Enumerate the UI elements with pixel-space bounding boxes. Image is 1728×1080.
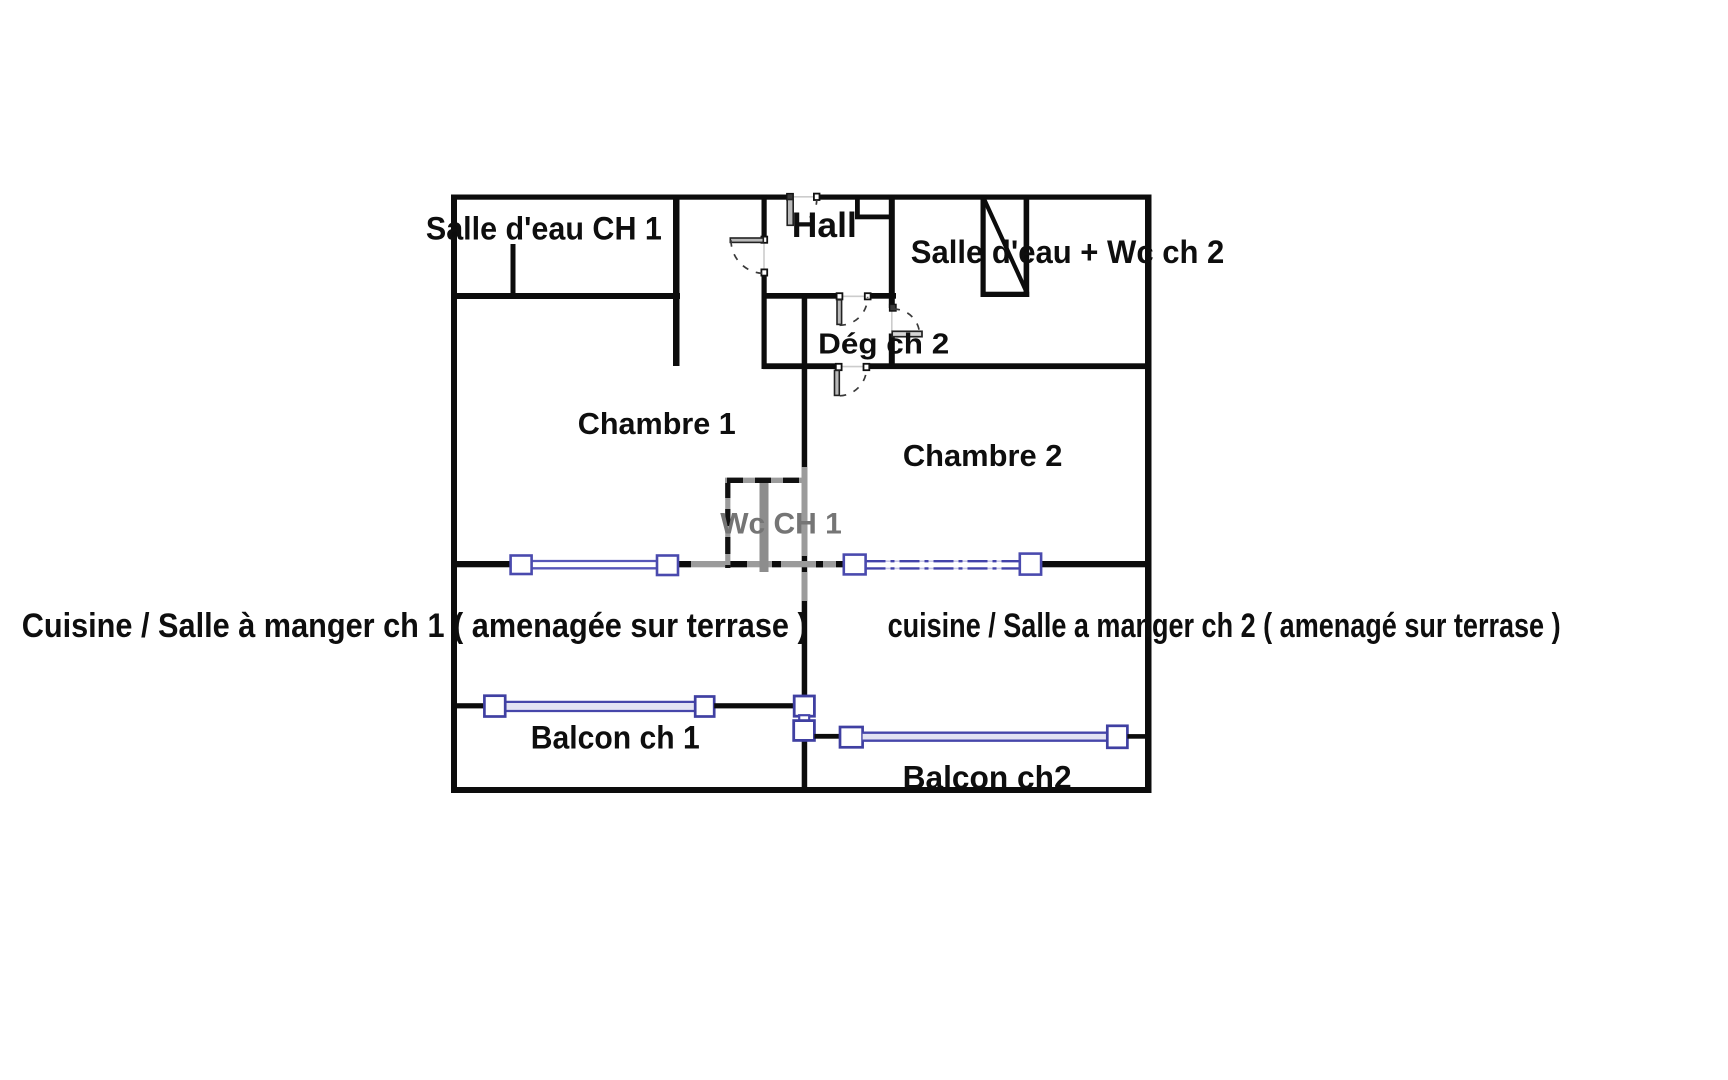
door leaf deg to chambre2 bbox=[835, 370, 840, 395]
divider junction square upper bbox=[794, 696, 814, 716]
watermark on band right of divider bbox=[808, 561, 836, 567]
door leaf deg to sde2 bbox=[892, 331, 922, 336]
wall hall niche vertical bbox=[855, 199, 860, 219]
window chambre2 dashdot bottom bbox=[866, 567, 1020, 569]
svg-text:Wc CH 1: Wc CH 1 bbox=[720, 508, 842, 541]
wall hall south west part bbox=[763, 293, 839, 299]
watermark on divider lower bbox=[802, 572, 808, 601]
svg-text:Balcon ch 1: Balcon ch 1 bbox=[531, 720, 700, 756]
wall top-right segment bbox=[817, 195, 1152, 200]
door jamb deg-ch2 east bbox=[864, 364, 870, 370]
door jamb deg-sde2 bbox=[890, 304, 896, 311]
door opening guide deg-ch2 bbox=[842, 366, 863, 368]
wall hall south east part bbox=[866, 293, 896, 299]
balcony1 window band fill bbox=[504, 701, 696, 712]
door opening guide entrance bbox=[794, 196, 817, 198]
divider junction square lower bbox=[794, 721, 815, 741]
svg-text:Balcon ch2: Balcon ch2 bbox=[903, 760, 1072, 796]
wall right exterior bbox=[1145, 195, 1152, 794]
balcony2 window line bottom bbox=[863, 740, 1108, 742]
wall salle d'eau ch1 south bbox=[451, 293, 680, 299]
door jamb entrance left bbox=[787, 194, 793, 200]
window chambre2 square left bbox=[844, 555, 866, 575]
balcony2 window square left bbox=[840, 727, 863, 747]
divider junction connector bbox=[799, 715, 809, 721]
wall divider chambre1/chambre2 bbox=[802, 293, 808, 696]
balcony2 window band fill bbox=[863, 733, 1108, 741]
door leaf hall to chambre1 bbox=[730, 238, 763, 242]
wall chambre2 north bbox=[864, 363, 1146, 369]
svg-text:Salle d'eau + Wc ch 2: Salle d'eau + Wc ch 2 bbox=[911, 234, 1225, 270]
svg-text:Chambre 1: Chambre 1 bbox=[578, 406, 736, 441]
door leaf hall to deg bbox=[837, 300, 842, 325]
wall salle d'eau ch1 stub bbox=[511, 244, 516, 299]
door jamb entrance right bbox=[814, 194, 820, 200]
balcony2 wall right stub bbox=[1127, 734, 1145, 739]
wall hall west upper bbox=[762, 195, 767, 239]
wall deg/closet south bbox=[763, 363, 837, 369]
balcony1 window square left bbox=[484, 696, 505, 717]
svg-text:Salle d'eau CH 1: Salle d'eau CH 1 bbox=[426, 211, 662, 247]
wall hall niche bottom bbox=[855, 215, 892, 220]
window chambre1 line bottom bbox=[532, 567, 658, 569]
wall deg ch2 east lower bbox=[889, 334, 895, 370]
door arc entrance bbox=[790, 200, 816, 226]
svg-text:Dég ch 2: Dég ch 2 bbox=[818, 329, 949, 361]
wall hall / salle d'eau ch2 bbox=[889, 195, 895, 309]
door jamb hall-deg east bbox=[865, 293, 871, 299]
closet wc ch1 top gray base bbox=[725, 478, 806, 483]
svg-text:Cuisine / Salle à manger ch 1: Cuisine / Salle à manger ch 1 ( amenagée… bbox=[22, 607, 808, 645]
window chambre2 faint line top bbox=[866, 560, 1020, 562]
door jamb hall-deg west bbox=[837, 293, 843, 299]
balcony2 wall left stub bbox=[814, 734, 840, 739]
door jamb hall west top bbox=[761, 237, 767, 243]
balcony2 window line top bbox=[863, 732, 1108, 734]
wall bottom exterior bbox=[451, 787, 1152, 793]
closet wc ch1 dashed top bbox=[727, 478, 806, 483]
band wall middle segment black dashes bbox=[678, 561, 691, 567]
balcony2 window square right bbox=[1107, 726, 1127, 748]
svg-text:Chambre 2: Chambre 2 bbox=[903, 438, 1063, 473]
wall salle d'eau ch1 east bbox=[673, 195, 680, 367]
shower diagonal bbox=[985, 200, 1028, 293]
window chambre1 line top bbox=[532, 560, 658, 562]
wall left exterior bbox=[451, 195, 457, 794]
band wall cuisine1 left segment bbox=[455, 561, 511, 567]
wall hall west lower / closet west bbox=[762, 274, 767, 370]
balcony1 window line bottom bbox=[504, 710, 696, 712]
closet wc ch1 left gray base bbox=[725, 479, 730, 568]
window chambre2 faint line bottom bbox=[866, 567, 1020, 569]
shower box salle d'eau ch2 bbox=[981, 199, 986, 297]
door arc hall to chambre1 bbox=[731, 240, 764, 273]
watermark gray bar bbox=[760, 478, 769, 572]
door arc deg to chambre2 bbox=[840, 367, 867, 396]
wall top-left segment bbox=[451, 195, 787, 200]
band wall right segment bbox=[1040, 561, 1146, 567]
door leaf entrance bbox=[787, 200, 793, 226]
door jamb hall west bottom bbox=[761, 269, 767, 275]
door jamb deg-ch2 west bbox=[836, 364, 842, 370]
wall divider below balcony squares bbox=[802, 740, 808, 787]
svg-text:cuisine / Salle a manger ch 2: cuisine / Salle a manger ch 2 ( amenagé … bbox=[888, 607, 1561, 645]
door opening guide hall west bbox=[763, 243, 765, 269]
window chambre1 square right bbox=[657, 556, 678, 576]
door arc deg to sde2 bbox=[894, 309, 920, 334]
watermark on divider upper bbox=[802, 467, 808, 556]
door arc hall to deg bbox=[840, 297, 868, 326]
balcony1 wall right stub bbox=[714, 703, 802, 708]
window chambre1 square left bbox=[511, 556, 532, 575]
closet wc ch1 dashed left bbox=[725, 481, 730, 568]
balcony1 window line top bbox=[504, 701, 696, 703]
window chambre2 square right bbox=[1020, 554, 1041, 575]
door opening guide hall-deg bbox=[843, 295, 865, 297]
svg-text:Hall: Hall bbox=[792, 206, 857, 245]
balcony1 window square right bbox=[695, 697, 714, 717]
window chambre2 dashdot top bbox=[866, 560, 1020, 562]
door opening guide deg-sde2 bbox=[891, 312, 893, 331]
balcony1 wall left stub bbox=[455, 703, 485, 708]
band wall middle segment gray base bbox=[678, 561, 845, 567]
